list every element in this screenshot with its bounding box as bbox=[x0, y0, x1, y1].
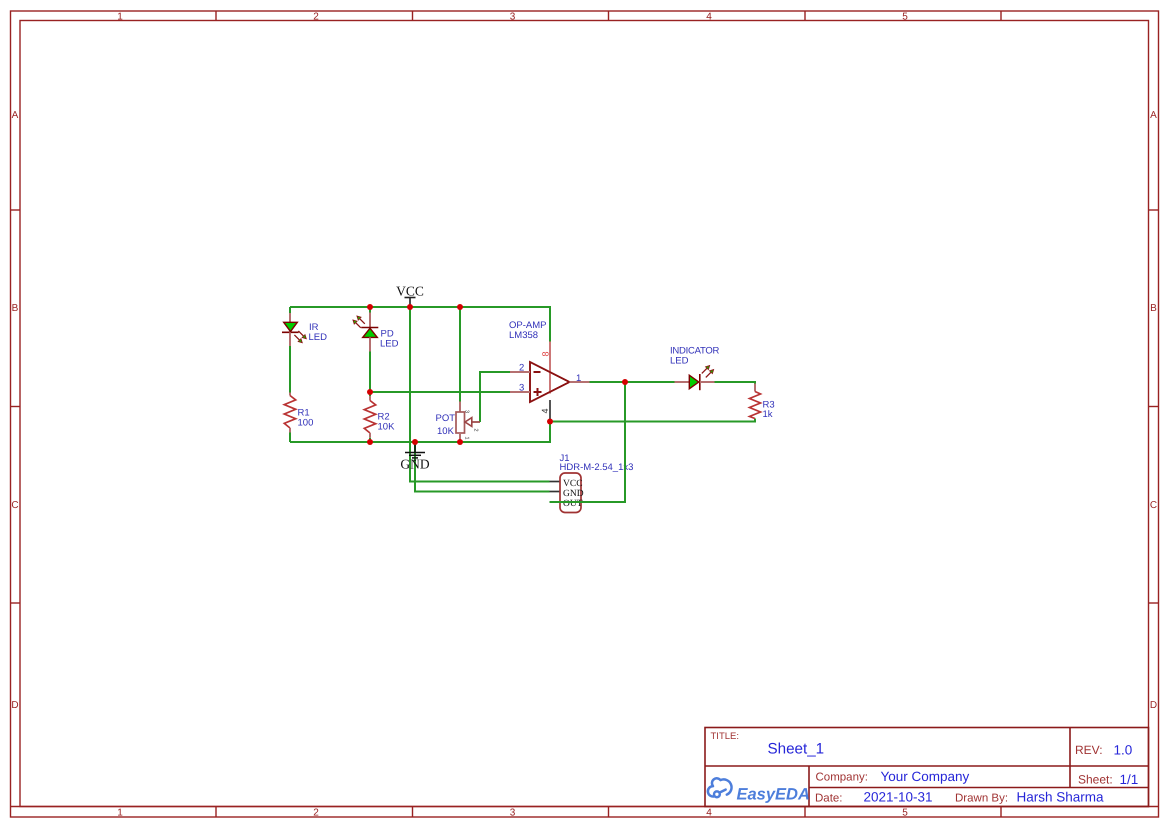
LED PD (rotated 180) bbox=[350, 313, 378, 352]
svg-text:GND: GND bbox=[563, 489, 584, 499]
wire GND column to J1 pin GND bbox=[415, 442, 550, 492]
svg-text:1: 1 bbox=[576, 373, 581, 384]
pin 1 line bbox=[570, 381, 590, 383]
svg-text:A: A bbox=[1150, 110, 1157, 121]
junction VCC rail / PD LED bbox=[367, 304, 373, 310]
svg-text:LED: LED bbox=[380, 339, 399, 350]
non-inverting input mark bbox=[534, 391, 542, 393]
wire op-amp output to J1 pin OUT bbox=[550, 382, 626, 502]
svg-text:4: 4 bbox=[540, 408, 550, 413]
pin 4 line bbox=[549, 400, 551, 422]
EasyEDA logo bbox=[708, 778, 732, 797]
LED INDICATOR bbox=[675, 363, 717, 390]
wire IR LED anode drop bbox=[289, 307, 291, 313]
svg-text:5: 5 bbox=[902, 808, 908, 819]
svg-text:B: B bbox=[12, 303, 19, 314]
title block bbox=[705, 728, 1149, 807]
svg-text:Drawn By:: Drawn By: bbox=[955, 793, 1008, 805]
pin 2 line bbox=[510, 371, 530, 373]
resistor R1 bbox=[284, 393, 295, 433]
VCC power symbol bbox=[405, 298, 416, 308]
wire POT top column bbox=[459, 307, 461, 402]
svg-text:POT: POT bbox=[436, 413, 456, 424]
svg-text:Sheet:: Sheet: bbox=[1078, 773, 1113, 787]
svg-text:OUT: OUT bbox=[563, 499, 583, 509]
ground bbox=[405, 442, 425, 460]
resistor R2 bbox=[364, 392, 375, 438]
svg-text:LED: LED bbox=[309, 332, 328, 343]
svg-text:VCC: VCC bbox=[396, 284, 424, 299]
svg-text:LED: LED bbox=[670, 356, 689, 367]
svg-text:Sheet_1: Sheet_1 bbox=[768, 741, 825, 758]
pin OUT line (J1) bbox=[550, 501, 561, 503]
wire op-amp pin 2 to POT wiper bbox=[480, 372, 510, 422]
junction VCC rail / VCC symbol bbox=[407, 304, 413, 310]
svg-text:1: 1 bbox=[464, 437, 470, 440]
wire R1 bottom drop bbox=[289, 433, 291, 443]
svg-text:8: 8 bbox=[540, 351, 550, 356]
svg-text:2: 2 bbox=[473, 429, 479, 432]
svg-text:C: C bbox=[1150, 500, 1157, 511]
svg-text:2: 2 bbox=[313, 808, 319, 819]
svg-text:2021-10-31: 2021-10-31 bbox=[864, 790, 933, 805]
svg-text:GND: GND bbox=[400, 457, 429, 472]
svg-text:100: 100 bbox=[298, 418, 314, 429]
wire R2 bottom drop bbox=[369, 438, 371, 442]
svg-text:HDR-M-2.54_1x3: HDR-M-2.54_1x3 bbox=[560, 462, 634, 473]
svg-text:EasyEDA: EasyEDA bbox=[737, 786, 810, 804]
junction pin 4 / R3 return bbox=[547, 419, 553, 425]
svg-text:3: 3 bbox=[510, 12, 516, 23]
wire op-amp output to indicator LED bbox=[590, 381, 675, 383]
svg-text:B: B bbox=[1150, 303, 1157, 314]
svg-text:D: D bbox=[11, 700, 18, 711]
potentiometer POT bbox=[456, 402, 480, 443]
svg-text:LM358: LM358 bbox=[509, 330, 538, 341]
wire PD LED to node A bbox=[369, 352, 371, 393]
inverting input mark bbox=[534, 371, 541, 373]
svg-text:1: 1 bbox=[117, 12, 123, 23]
svg-text:Company:: Company: bbox=[816, 772, 868, 784]
wire R3 bottom to pin 4 junction bbox=[550, 419, 755, 422]
svg-text:VCC: VCC bbox=[563, 479, 583, 489]
junction GND rail / R2 bbox=[367, 439, 373, 445]
pin 3 line bbox=[510, 391, 530, 393]
junction VCC rail / POT bbox=[457, 304, 463, 310]
junction node A (PD LED / R2 / pin 3) bbox=[367, 389, 373, 395]
svg-text:TITLE:: TITLE: bbox=[711, 731, 740, 742]
wire node A to op-amp pin 3 bbox=[370, 391, 510, 393]
junction output node bbox=[622, 379, 628, 385]
svg-text:D: D bbox=[1150, 700, 1157, 711]
connector J1 HDR-M-2.54_1x3 bbox=[550, 473, 584, 513]
svg-text:3: 3 bbox=[464, 410, 470, 413]
junction GND rail / POT bbox=[457, 439, 463, 445]
svg-text:5: 5 bbox=[902, 12, 908, 23]
svg-text:4: 4 bbox=[706, 12, 712, 23]
svg-text:1/1: 1/1 bbox=[1120, 772, 1139, 787]
svg-text:1k: 1k bbox=[763, 409, 773, 420]
wire GND bottom rail bbox=[290, 422, 550, 443]
wire VCC column to J1 pin VCC bbox=[410, 307, 550, 482]
junction GND rail / ground symbol bbox=[412, 439, 418, 445]
svg-text:4: 4 bbox=[706, 808, 712, 819]
svg-text:2: 2 bbox=[313, 12, 319, 23]
svg-text:Date:: Date: bbox=[815, 793, 843, 805]
svg-text:2: 2 bbox=[519, 363, 524, 374]
svg-text:1: 1 bbox=[117, 808, 123, 819]
LED IR bbox=[282, 313, 309, 346]
wire PD LED top drop bbox=[369, 307, 371, 313]
svg-text:3: 3 bbox=[519, 383, 524, 394]
pin 8 line bbox=[549, 342, 551, 394]
svg-text:A: A bbox=[12, 110, 19, 121]
svg-text:Harsh Sharma: Harsh Sharma bbox=[1017, 790, 1105, 805]
op-amp OP-AMP LM358 bbox=[510, 342, 590, 422]
svg-text:Your Company: Your Company bbox=[881, 769, 970, 784]
svg-text:10K: 10K bbox=[378, 422, 396, 433]
pin VCC line (J1) bbox=[550, 481, 561, 483]
pin GND line (J1) bbox=[550, 491, 561, 493]
svg-text:REV:: REV: bbox=[1075, 743, 1103, 757]
wire IR LED cathode to R1 bbox=[289, 346, 291, 393]
svg-text:10K: 10K bbox=[437, 426, 455, 437]
wire indicator LED to R3 top bbox=[715, 382, 756, 384]
resistor R3 bbox=[750, 384, 761, 419]
svg-text:3: 3 bbox=[510, 808, 516, 819]
svg-text:C: C bbox=[11, 500, 18, 511]
wire VCC top rail bbox=[290, 307, 550, 342]
svg-text:1.0: 1.0 bbox=[1114, 743, 1133, 758]
